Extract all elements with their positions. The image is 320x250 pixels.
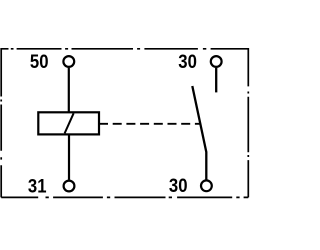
relay coil K1 (38, 112, 99, 134)
terminal 30 top (211, 56, 222, 67)
svg-text:30: 30 (169, 175, 188, 196)
relay enclosure phantom border: bottom (1, 196, 248, 198)
wire terminal 30 to fixed contact (215, 68, 217, 93)
dashed actuation link coil to switch arm (99, 123, 200, 125)
terminal 30 bottom (201, 180, 212, 191)
svg-text:31: 31 (28, 175, 47, 196)
terminal 50 (63, 56, 74, 67)
relay enclosure phantom border: left (0, 48, 2, 197)
wire coil bottom to terminal 31 (68, 134, 70, 179)
svg-text:50: 50 (30, 51, 49, 72)
coil diagonal (65, 113, 74, 133)
relay enclosure phantom border: right (247, 48, 249, 197)
relay enclosure phantom border: top (1, 48, 248, 50)
svg-text:30: 30 (178, 51, 197, 72)
terminal 31 (64, 181, 75, 192)
switch arm (movable contact) (192, 86, 206, 180)
wire terminal 50 to coil top (68, 68, 70, 112)
